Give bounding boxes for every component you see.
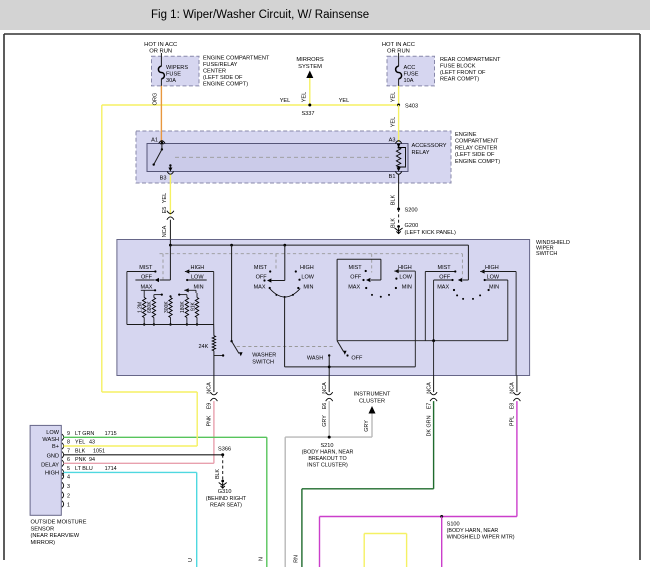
mechanical dashed link [160, 253, 463, 255]
node S100 [440, 515, 443, 518]
svg-text:1715: 1715 [105, 431, 117, 437]
wire YEL horizontal jog [102, 391, 197, 393]
fuse ACC FUSE 10A symbol [396, 66, 402, 78]
wire [160, 79, 162, 86]
svg-text:300K: 300K [164, 301, 170, 313]
section3 left edge [336, 259, 338, 341]
section3 arc contact dots [371, 294, 373, 296]
connector E8 [513, 392, 520, 395]
sensor unused pins 4..1 [62, 473, 64, 479]
svg-text:BLK: BLK [215, 469, 221, 479]
node S403 [397, 104, 400, 107]
svg-text:MAX: MAX [254, 285, 266, 291]
svg-text:MIST: MIST [139, 265, 153, 271]
svg-text:FUSE/RELAY: FUSE/RELAY [203, 62, 238, 68]
wire BLK from relay B1 to S200 [398, 175, 400, 210]
wire YEL vertical [196, 392, 198, 446]
wire exit E7 [433, 376, 435, 393]
svg-text:MAX: MAX [348, 285, 360, 291]
terminal B3 contact [169, 164, 171, 166]
wire DK GRN E7 [433, 401, 435, 489]
svg-text:FUSE: FUSE [166, 72, 181, 78]
svg-text:YEL: YEL [391, 92, 397, 103]
ground G310 [219, 483, 227, 486]
svg-text:YEL: YEL [75, 440, 85, 446]
windshield wiper switch box [117, 240, 530, 376]
svg-text:OFF: OFF [256, 275, 268, 281]
wire exit E6 [328, 376, 330, 393]
wire NCA to switch [169, 220, 171, 240]
svg-text:6: 6 [67, 457, 70, 463]
svg-text:MIN: MIN [194, 285, 204, 291]
section4 HIGH to PPL exit [515, 272, 517, 376]
wire PPL S100 branch down [441, 517, 443, 567]
wire exit E9 [213, 376, 215, 393]
svg-text:ENGINE: ENGINE [455, 132, 477, 138]
svg-text:94: 94 [89, 457, 95, 463]
contact arrow HIGH [185, 269, 189, 273]
diagram frame [4, 33, 640, 35]
wire LT BLU 1714 [64, 471, 197, 473]
resistor 91K [196, 293, 198, 298]
svg-text:U: U [188, 558, 194, 562]
svg-text:MIST: MIST [254, 265, 268, 271]
washer switch arm (right) [337, 341, 343, 352]
wire [398, 79, 400, 86]
svg-text:S200: S200 [405, 208, 418, 214]
svg-text:DK GRN: DK GRN [426, 415, 432, 436]
node S200 [397, 208, 400, 211]
svg-text:24K: 24K [199, 344, 209, 350]
section3/4 bottom line [337, 340, 508, 342]
arrow to mirrors system [306, 71, 313, 79]
svg-text:OR RUN: OR RUN [149, 49, 172, 55]
fuse box: rear compartment fuse block [387, 56, 435, 86]
svg-text:B1: B1 [389, 174, 396, 180]
junction bus sec2 feed [283, 244, 286, 247]
svg-text:10A: 10A [404, 78, 414, 84]
junction bus washer feed [230, 244, 233, 247]
fuse box: engine compartment fuse/relay center [152, 56, 200, 86]
svg-text:LOW: LOW [301, 275, 314, 281]
wire YEL bus horizontal [102, 104, 399, 106]
svg-text:REAR COMPT): REAR COMPT) [440, 77, 479, 83]
svg-text:MIN: MIN [303, 285, 313, 291]
svg-text:Fig 1: Wiper/Washer Circuit, W: Fig 1: Wiper/Washer Circuit, W/ Rainsens… [151, 9, 369, 21]
relay inner body [147, 144, 408, 172]
section4 wiper arm at OFF [467, 245, 469, 280]
svg-text:INSTRUMENT: INSTRUMENT [354, 392, 391, 398]
svg-text:B3: B3 [160, 176, 167, 182]
svg-text:CLUSTER: CLUSTER [359, 398, 385, 404]
connector E9 [210, 392, 217, 395]
svg-text:1: 1 [67, 502, 70, 508]
svg-text:SWITCH: SWITCH [536, 251, 557, 257]
wire YEL S403 to relay A3 [398, 105, 400, 142]
svg-text:S366: S366 [218, 447, 231, 453]
arrow to instrument cluster [369, 406, 376, 414]
svg-text:REAR SEAT): REAR SEAT) [210, 503, 242, 509]
wire GRY down to bottom [284, 437, 286, 567]
terminal A3 [395, 141, 401, 144]
resistor 180K [186, 295, 188, 298]
svg-text:MIN: MIN [402, 285, 412, 291]
svg-text:(BODY HARN, NEAR: (BODY HARN, NEAR [447, 528, 499, 534]
wire BLK S200 to G200 [398, 209, 400, 227]
wire LT GRN down to bottom [266, 437, 268, 567]
svg-text:ENGINE COMPT): ENGINE COMPT) [203, 82, 248, 88]
svg-text:GND: GND [47, 453, 59, 459]
wire GRY to instrument cluster [371, 414, 373, 438]
svg-text:ENGINE COMPARTMENT: ENGINE COMPARTMENT [203, 56, 270, 62]
svg-text:PPL: PPL [510, 416, 516, 426]
svg-text:HOT IN ACC: HOT IN ACC [382, 42, 415, 48]
junction bus entry [169, 244, 172, 247]
contact arrow MIN [184, 288, 188, 292]
svg-text:MIRROR): MIRROR) [31, 540, 56, 546]
svg-text:RELAY: RELAY [412, 150, 430, 156]
svg-text:WASHER: WASHER [252, 353, 276, 359]
svg-text:A1: A1 [151, 138, 158, 144]
svg-text:BLK: BLK [391, 218, 397, 228]
wire LT GRN 1715 [64, 436, 267, 438]
switch internal top bus [169, 240, 171, 246]
wire YEL left vertical run [101, 105, 103, 392]
svg-text:CENTER: CENTER [203, 69, 226, 75]
svg-text:OUTSIDE MOISTURE: OUTSIDE MOISTURE [31, 520, 87, 526]
wire DK GRN run to bottom [302, 488, 434, 490]
svg-text:RN: RN [294, 555, 300, 563]
svg-text:(BODY HARN, NEAR: (BODY HARN, NEAR [302, 449, 354, 455]
wire PPL run to S100 [320, 516, 517, 518]
svg-text:8: 8 [67, 440, 70, 446]
svg-text:NCA: NCA [162, 225, 168, 237]
section2 wiper arm at OFF [284, 245, 286, 280]
wire PPL E8 [516, 401, 518, 516]
svg-text:MAX: MAX [141, 285, 153, 291]
node S210 [328, 436, 331, 439]
svg-text:HIGH: HIGH [300, 265, 314, 271]
svg-text:43: 43 [89, 440, 95, 446]
svg-text:INST CLUSTER): INST CLUSTER) [307, 463, 348, 469]
svg-text:HIGH: HIGH [398, 265, 412, 271]
svg-text:S337: S337 [301, 111, 314, 117]
connector E5 [167, 211, 174, 214]
section2 rotary arc [270, 289, 301, 298]
svg-text:WASH: WASH [307, 355, 323, 361]
svg-text:HOT IN ACC: HOT IN ACC [144, 42, 177, 48]
svg-text:PNK: PNK [75, 457, 86, 463]
svg-text:E7: E7 [426, 403, 432, 410]
svg-text:YEL: YEL [162, 193, 168, 204]
svg-text:WINDSHIELD WIPER MTR): WINDSHIELD WIPER MTR) [447, 534, 515, 540]
wire feed into wipers fuse [160, 53, 162, 66]
section1 wiper arm at OFF [155, 278, 159, 282]
svg-text:MIST: MIST [438, 265, 452, 271]
svg-text:YEL: YEL [339, 98, 350, 104]
svg-text:(LEFT KICK PANEL): (LEFT KICK PANEL) [405, 230, 457, 236]
svg-text:YEL: YEL [280, 98, 291, 104]
resistor 680K [153, 295, 155, 298]
svg-text:REAR COMPARTMENT: REAR COMPARTMENT [440, 57, 501, 63]
svg-text:BREAKOUT TO: BREAKOUT TO [308, 456, 346, 462]
svg-text:GRY: GRY [364, 420, 370, 432]
wire GRY S210 bus [285, 436, 372, 438]
resistor 300K [169, 295, 171, 297]
section4 arc contact dots [456, 294, 458, 296]
section4 left edge [424, 272, 426, 341]
section1 bottom bus [127, 324, 214, 326]
wire GRY E6 to S210 [328, 401, 330, 437]
svg-text:3: 3 [67, 484, 70, 490]
svg-text:E6: E6 [322, 403, 328, 410]
svg-text:MIST: MIST [349, 265, 363, 271]
svg-text:(LEFT SIDE OF: (LEFT SIDE OF [203, 75, 243, 81]
svg-text:WASH: WASH [42, 437, 59, 443]
svg-text:OFF: OFF [350, 275, 362, 281]
section1 left edge [126, 272, 128, 325]
svg-text:E5: E5 [162, 207, 168, 214]
connector E6 [326, 392, 333, 395]
section3 HIGH to wash bus [414, 271, 416, 367]
junction DK GRN takeoff [432, 339, 435, 342]
wire LT BLU down to bottom [196, 472, 198, 567]
section3 wiper arm at OFF [337, 258, 381, 260]
wire YEL from relay B3 [169, 175, 171, 216]
svg-text:YEL: YEL [391, 117, 397, 128]
svg-text:G200: G200 [405, 223, 419, 229]
junction wash bus [328, 366, 331, 369]
wire BLK to G310 [222, 455, 224, 481]
svg-text:HIGH: HIGH [45, 471, 59, 477]
svg-text:ACC: ACC [404, 65, 416, 71]
svg-text:DELAY: DELAY [41, 463, 59, 469]
svg-text:S403: S403 [405, 104, 418, 110]
section1 right edge [213, 272, 215, 325]
contact WASH [328, 354, 330, 356]
svg-text:YEL: YEL [302, 92, 308, 103]
wire PNK E9 to sensor [213, 401, 215, 463]
svg-text:2: 2 [67, 493, 70, 499]
svg-text:1714: 1714 [105, 466, 117, 472]
svg-text:SWITCH: SWITCH [252, 360, 274, 366]
svg-text:(NEAR REARVIEW: (NEAR REARVIEW [31, 533, 80, 539]
svg-text:1.2M: 1.2M [137, 302, 143, 313]
svg-text:LOW: LOW [46, 430, 59, 436]
svg-text:NCA: NCA [510, 382, 516, 394]
svg-text:LOW: LOW [399, 275, 412, 281]
section4 OFF to bottom line [433, 280, 435, 341]
svg-text:COMPARTMENT: COMPARTMENT [455, 139, 499, 145]
wire YEL over relay box [398, 131, 400, 143]
wire YEL 43 [64, 445, 198, 447]
wire exit E8 [516, 376, 518, 393]
sensor pin 6 PNK 94 [62, 460, 64, 466]
relay internal dashed link [175, 156, 392, 158]
svg-text:180K: 180K [180, 301, 186, 313]
svg-text:RELAY CENTER: RELAY CENTER [455, 145, 497, 151]
mechanical dashed link washer [237, 346, 333, 348]
svg-text:FUSE: FUSE [404, 72, 419, 78]
wash bus [285, 366, 416, 368]
relay switch contact [161, 144, 163, 150]
wire ORG from fuse to relay A1 [160, 86, 162, 142]
svg-text:BLK: BLK [391, 194, 397, 205]
svg-text:ENGINE COMPT): ENGINE COMPT) [455, 159, 500, 165]
terminal A1 [159, 141, 165, 144]
svg-text:FUSE BLOCK: FUSE BLOCK [440, 64, 476, 70]
svg-text:WIPERS: WIPERS [166, 65, 188, 71]
wire ORG over relay box [160, 131, 162, 143]
svg-text:NCA: NCA [426, 382, 432, 394]
svg-text:MIRRORS: MIRRORS [296, 57, 324, 63]
svg-text:HIGH: HIGH [191, 265, 205, 271]
wire YEL bottom U [363, 534, 365, 567]
svg-text:OFF: OFF [351, 355, 363, 361]
relay coil [396, 148, 400, 168]
wire PNK 94 [64, 462, 214, 464]
svg-text:G310: G310 [218, 489, 232, 495]
svg-text:91K: 91K [190, 301, 196, 311]
resistor 1.2M [143, 290, 145, 297]
svg-text:ORG: ORG [153, 93, 159, 106]
wire BLK 1051 [64, 454, 223, 456]
sensor pin 9 LT GRN 1715 [62, 434, 64, 440]
terminal B3 [167, 172, 173, 175]
svg-text:5: 5 [67, 466, 70, 472]
svg-text:A3: A3 [389, 138, 396, 144]
connector E7 [430, 392, 437, 395]
svg-text:4: 4 [67, 474, 70, 480]
washer switch arm (left) [231, 245, 233, 341]
fuse WIPERS FUSE 30A symbol [158, 66, 164, 78]
svg-text:MIN: MIN [489, 285, 499, 291]
svg-text:S100: S100 [447, 521, 460, 527]
wire YEL from acc fuse to S403 [398, 86, 400, 105]
svg-text:HIGH: HIGH [485, 265, 499, 271]
svg-text:LT BLU: LT BLU [75, 466, 93, 472]
outside moisture sensor box [30, 425, 61, 515]
svg-text:SYSTEM: SYSTEM [298, 64, 322, 70]
svg-text:30A: 30A [166, 78, 176, 84]
svg-text:1051: 1051 [93, 449, 105, 455]
relay box: engine compartment relay center (dashed) [136, 131, 451, 183]
svg-text:NCA: NCA [322, 382, 328, 394]
svg-text:N: N [259, 557, 265, 561]
svg-text:9: 9 [67, 431, 70, 437]
svg-text:GRY: GRY [322, 415, 328, 427]
svg-text:E8: E8 [510, 403, 516, 410]
svg-text:MAX: MAX [437, 285, 449, 291]
wire feed into acc fuse [398, 53, 400, 66]
svg-text:7: 7 [67, 449, 70, 455]
svg-text:(LEFT SIDE OF: (LEFT SIDE OF [455, 152, 495, 158]
svg-text:(LEFT FRONT OF: (LEFT FRONT OF [440, 70, 486, 76]
title bar [0, 0, 650, 30]
sensor pin 5 LT BLU 1714 [62, 469, 64, 475]
svg-text:E9: E9 [207, 403, 213, 410]
mirrors system branch [309, 78, 311, 105]
svg-text:ACCESSORY: ACCESSORY [412, 143, 447, 149]
section4 right edge [507, 280, 509, 341]
svg-text:B+: B+ [52, 444, 59, 450]
svg-text:LT GRN: LT GRN [75, 431, 94, 437]
ground G200 [395, 228, 403, 231]
svg-text:NCA: NCA [207, 382, 213, 394]
svg-text:SENSOR: SENSOR [31, 526, 55, 532]
svg-text:BLK: BLK [75, 449, 86, 455]
node S366 [221, 453, 224, 456]
sensor pin 7 BLK 1051 [62, 452, 64, 458]
washer contact stub [214, 355, 223, 357]
svg-text:(BEHIND RIGHT: (BEHIND RIGHT [206, 496, 247, 502]
svg-text:S210: S210 [320, 443, 333, 449]
sensor pin 8 YEL 43 [62, 443, 64, 449]
terminal B1 [395, 172, 401, 175]
resistor 24K [213, 325, 215, 336]
svg-text:PNK: PNK [207, 415, 213, 426]
section2 wiper to wash bus [284, 297, 286, 367]
node S337 [308, 104, 311, 107]
svg-text:680K: 680K [147, 301, 153, 313]
